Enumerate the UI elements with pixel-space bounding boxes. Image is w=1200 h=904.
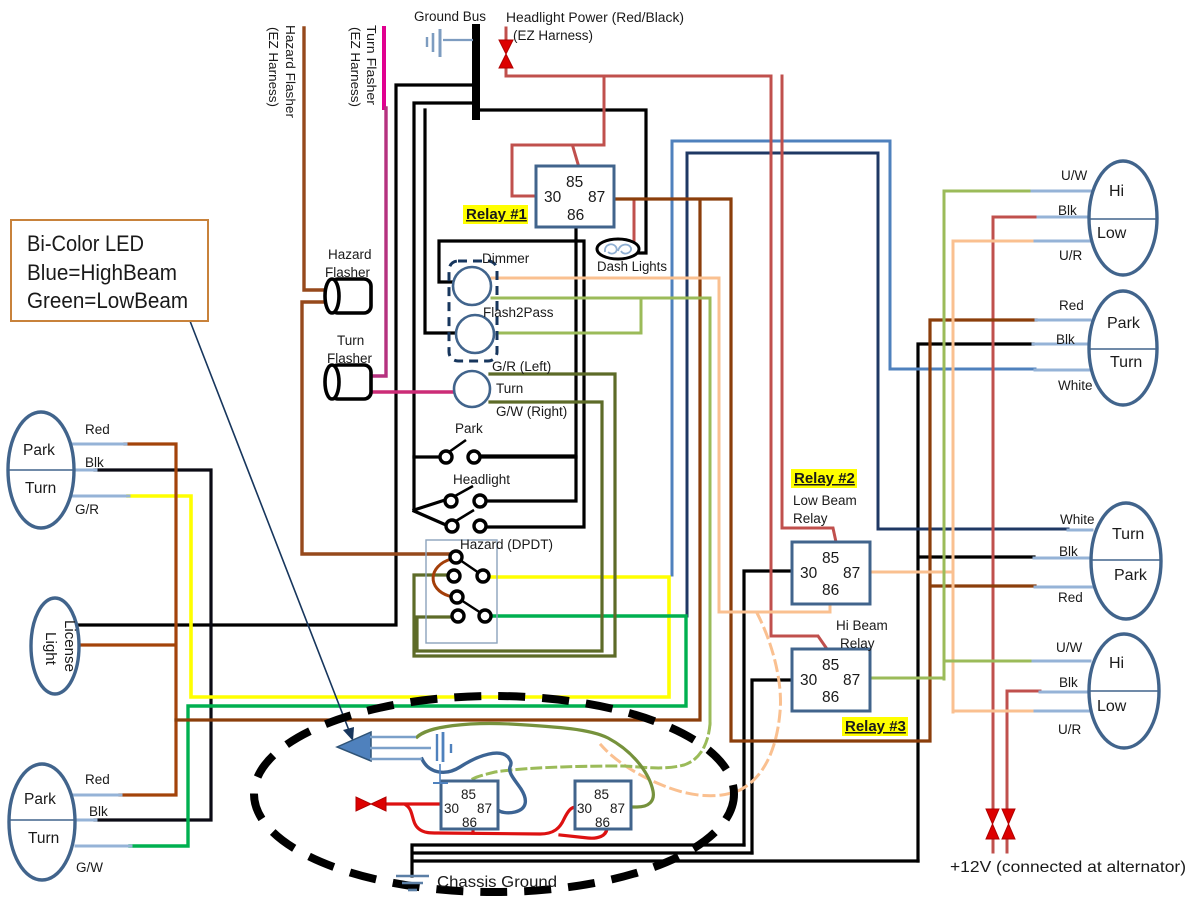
svg-text:Park: Park — [455, 421, 483, 436]
wire navy turn net: dash area to ellipse3 White — [687, 153, 1068, 616]
light blue stub ellipse bottomleft G/W — [76, 845, 131, 848]
svg-text:Hazard: Hazard — [328, 247, 372, 262]
svg-text:Turn Flasher: Turn Flasher — [364, 25, 378, 105]
relay chassis A box — [441, 781, 498, 829]
relay U1 Relay #1 box — [536, 166, 614, 227]
svg-text:White: White — [1060, 512, 1095, 527]
svg-text:Turn: Turn — [496, 381, 523, 396]
wire red stub to relayA 86 — [471, 829, 474, 833]
wire crimson +12V riser from ellipse1 Blk — [993, 217, 1038, 808]
flasher can: turn flasher — [325, 365, 371, 399]
svg-text:Low: Low — [1097, 225, 1127, 242]
relay2 pin numbers — [800, 550, 860, 599]
wire ground-bus to license-light black (net GND-A) — [76, 85, 473, 625]
svg-text:Blk: Blk — [1058, 203, 1077, 218]
wire relay3 pin30 to chassis ground — [752, 680, 792, 853]
switch: turn circle — [454, 371, 490, 407]
wire crimson feed to relay2 85 — [782, 76, 836, 542]
navy pointer line from LED note box — [190, 321, 350, 733]
svg-text:Flasher: Flasher — [325, 265, 371, 280]
svg-text:Low: Low — [1097, 698, 1127, 715]
wire olive G/W right loop: turn switch to hazard — [417, 402, 602, 651]
svg-text:86: 86 — [462, 815, 477, 830]
light blue stub ellipse topleft Blk — [74, 469, 96, 472]
wire relay2 pin30 to chassis ground — [744, 571, 792, 845]
switch: dimmer circle — [453, 267, 491, 305]
wire crimson stub to relay1 pin85 — [573, 147, 578, 164]
svg-text:Hi: Hi — [1109, 183, 1124, 200]
wire tan relay2-87 to ellipse1 U/R and ellipse4 U/R — [870, 241, 1035, 712]
svg-text:30: 30 — [444, 801, 459, 816]
svg-text:Relay #3: Relay #3 — [845, 718, 906, 735]
wire olive G/R left loop: turn switch to hazard — [414, 374, 615, 656]
lamp label license light vertical — [42, 620, 77, 672]
chassis dashed ellipse outline — [254, 696, 734, 892]
svg-text:85: 85 — [822, 550, 839, 567]
light blue stubs ellipse1 U/W Blk U/R — [1032, 191, 1090, 241]
svg-text:Blk: Blk — [1059, 544, 1078, 559]
svg-text:Dimmer: Dimmer — [482, 251, 530, 266]
wire steelblue turn net: yellow corner to ellipse2 White — [672, 141, 1035, 575]
svg-text:U/R: U/R — [1058, 722, 1082, 737]
svg-text:30: 30 — [800, 565, 818, 582]
flasher can: hazard flasher — [325, 279, 371, 313]
svg-text:Flasher: Flasher — [327, 351, 373, 366]
wire brown park net left: ellipse Red stubs and license — [76, 444, 176, 795]
lamp labels ellipse1 — [1097, 183, 1127, 242]
lamp ellipse4 Hi/Low right bottom — [1089, 634, 1159, 748]
svg-text:Bi-Color LED: Bi-Color LED — [27, 231, 144, 256]
light blue stub ellipse bottomleft Red — [73, 794, 121, 797]
svg-text:G/W (Right): G/W (Right) — [496, 404, 567, 419]
svg-text:87: 87 — [588, 189, 605, 206]
lamp ellipse3 Turn/Park right — [1091, 503, 1161, 619]
svg-text:White: White — [1058, 378, 1093, 393]
wire ellipse2 Blk to chassis ground riser — [918, 344, 1034, 861]
LED arrow symbol (blue) — [337, 732, 431, 761]
relay U3 Relay #3 box — [792, 649, 870, 711]
svg-text:Relay #2: Relay #2 — [794, 470, 855, 487]
wire light green dimmer/flash2pass net — [492, 298, 710, 724]
wire brown hazard flasher drop — [302, 28, 449, 554]
wire red stub relay1-87 to dash lights — [633, 199, 636, 240]
light blue stubs ellipse3 White Blk Red — [1034, 530, 1092, 587]
note box Bi-Color LED — [11, 220, 208, 321]
lamp labels ellipse2 — [1107, 315, 1142, 371]
wire ground-bus to park/headlight switch left (net GND-B) — [414, 103, 476, 510]
svg-text:(EZ Harness): (EZ Harness) — [266, 27, 280, 107]
label Relay #2 highlighted — [791, 469, 857, 488]
svg-text:87: 87 — [477, 801, 492, 816]
connector symbol (headlight power, red bowtie) — [499, 40, 513, 68]
ground symbol (chassis ground, bottom) — [396, 876, 429, 890]
wire olive chassis curve to relayB 87 — [417, 724, 653, 807]
wire green G/W turn net — [130, 616, 686, 846]
relay3 pin numbers — [800, 657, 860, 706]
svg-text:Turn: Turn — [337, 333, 364, 348]
wire red from relayB 86 — [560, 829, 607, 838]
svg-text:87: 87 — [843, 565, 860, 582]
label Relay #3 highlighted — [842, 717, 908, 736]
ground symbol (inside chassis, near LED arrow) — [433, 732, 451, 783]
dashed navy box around dimmer/flash2pass — [449, 261, 497, 361]
lamp ellipse topleft Park/Turn — [8, 412, 74, 528]
svg-text:License: License — [61, 620, 77, 672]
svg-text:Red: Red — [1059, 298, 1084, 313]
svg-text:+12V (connected at alternator): +12V (connected at alternator) — [950, 859, 1186, 876]
svg-text:Ground Bus: Ground Bus — [414, 9, 486, 24]
switch: hazard DPDT box, contacts and levers — [426, 540, 497, 643]
pointer arrowhead (navy) — [343, 727, 354, 741]
svg-text:Hazard (DPDT): Hazard (DPDT) — [460, 537, 553, 552]
svg-text:Light: Light — [42, 632, 58, 665]
svg-text:G/R: G/R — [75, 502, 99, 517]
svg-text:85: 85 — [461, 787, 476, 802]
label Relay #1 highlighted — [463, 205, 528, 224]
svg-text:85: 85 — [594, 787, 609, 802]
svg-text:Blue=HighBeam: Blue=HighBeam — [27, 260, 177, 285]
svg-text:Park: Park — [1107, 315, 1141, 332]
svg-text:30: 30 — [577, 801, 592, 816]
wire switch housing top and right side — [439, 241, 584, 527]
light blue stubs ellipse4 U/W Blk U/R — [1033, 661, 1090, 711]
wire crimson feed to relay1 — [512, 76, 604, 196]
wire magenta turn flasher drop — [371, 108, 386, 376]
wire light green dashed to chassis relay 85 — [471, 724, 710, 780]
svg-text:Hi Beam: Hi Beam — [836, 618, 888, 633]
switch: flash2pass circle — [456, 315, 494, 353]
wire magenta turn flasher to turn switch — [371, 390, 454, 393]
lamp ellipse license light — [31, 598, 79, 694]
ground bus bar — [472, 28, 480, 116]
svg-text:87: 87 — [610, 801, 625, 816]
svg-text:G/W: G/W — [76, 860, 103, 875]
svg-text:86: 86 — [822, 689, 839, 706]
wire fork to headlight switch left contacts — [414, 500, 446, 525]
switch: park contacts and lever — [440, 440, 480, 463]
svg-text:30: 30 — [800, 672, 818, 689]
svg-text:Turn: Turn — [25, 480, 56, 497]
svg-text:85: 85 — [566, 174, 583, 191]
wire relay1 pin86 down to park switch and headlight switch — [480, 227, 576, 501]
svg-text:Relay #1: Relay #1 — [466, 206, 527, 223]
svg-text:Red: Red — [85, 772, 110, 787]
svg-text:G/R (Left): G/R (Left) — [492, 359, 551, 374]
svg-text:Blk: Blk — [1059, 675, 1078, 690]
svg-text:Dash Lights: Dash Lights — [597, 259, 667, 274]
lamp ellipse1 Hi/Low right top — [1089, 161, 1157, 275]
svg-text:Turn: Turn — [1110, 354, 1142, 371]
wire tan dashed into chassis area — [601, 613, 780, 796]
svg-text:Low Beam: Low Beam — [793, 493, 857, 508]
svg-text:Blk: Blk — [1056, 332, 1075, 347]
note text Bi-Color LED — [27, 231, 188, 313]
wire ground drop to Flash2Pass switch — [425, 110, 456, 333]
relay U2 Relay #2 box — [792, 542, 870, 604]
svg-text:Park: Park — [24, 791, 56, 808]
wire park switch left arm — [414, 455, 440, 458]
wire left top ellipse Blk loop to left bottom ellipse Blk — [95, 470, 211, 820]
relay1 pin numbers — [544, 174, 605, 224]
svg-text:(EZ Harness): (EZ Harness) — [348, 27, 362, 107]
light blue stub ellipse bottomleft Blk — [76, 819, 96, 822]
connector symbol +12V bowtie left — [986, 809, 999, 839]
svg-text:86: 86 — [822, 582, 839, 599]
wire park switch right contact to relay86 riser — [480, 455, 576, 458]
chassis relay A pin numbers — [444, 787, 492, 830]
svg-text:Red: Red — [85, 422, 110, 437]
wire light green relay3-87 to ellipse1 U/W and ellipse4 U/W — [870, 191, 1033, 679]
svg-text:Turn: Turn — [1112, 526, 1144, 543]
svg-text:Relay: Relay — [793, 511, 828, 526]
lamp ellipse bottomleft Park/Turn — [9, 764, 75, 880]
wire steelblue squiggle to relayA 87 — [422, 753, 525, 813]
wire magenta turn flasher feed — [382, 28, 386, 108]
wire brown hazard jumper arc cA-cC — [433, 559, 451, 596]
svg-text:(EZ Harness): (EZ Harness) — [513, 28, 593, 43]
lamp dash lights ellipse — [597, 239, 639, 259]
switch: headlight contacts and levers — [445, 486, 486, 532]
svg-text:Hi: Hi — [1109, 655, 1124, 672]
lamp labels ellipse4 — [1097, 655, 1127, 715]
wire chassis ground bus lines — [412, 845, 918, 876]
svg-text:87: 87 — [843, 672, 860, 689]
svg-text:Flash2Pass: Flash2Pass — [483, 305, 554, 320]
chassis relay B pin numbers — [577, 787, 625, 830]
svg-text:Turn: Turn — [28, 830, 59, 847]
ground symbol (ground bus, top) — [427, 29, 473, 57]
svg-text:Hazard Flasher: Hazard Flasher — [283, 25, 297, 118]
lamp labels topleft ellipse — [23, 442, 56, 497]
wire red chassis: bowtie to relayA 30 and relayB 30 — [386, 804, 576, 834]
svg-text:Park: Park — [1114, 567, 1148, 584]
svg-text:Headlight Power (Red/Black): Headlight Power (Red/Black) — [506, 10, 684, 25]
svg-text:Blk: Blk — [89, 804, 108, 819]
svg-text:U/W: U/W — [1056, 640, 1083, 655]
wire ground-bus horizontal to dash lights corner (net GND-C) — [476, 110, 646, 253]
svg-text:Chassis Ground: Chassis Ground — [437, 874, 557, 891]
svg-text:85: 85 — [822, 657, 839, 674]
svg-text:Relay: Relay — [840, 636, 875, 651]
relay chassis B box — [575, 781, 631, 829]
svg-text:Headlight: Headlight — [453, 472, 510, 487]
wire brown relay1-87 park feed net — [176, 199, 1036, 741]
svg-text:Blk: Blk — [85, 455, 104, 470]
svg-text:U/W: U/W — [1061, 168, 1088, 183]
wire +12V stubs below connectors — [993, 840, 1007, 852]
wire crimson +12V riser from ellipse4 Blk — [1007, 691, 1040, 808]
svg-text:Green=LowBeam: Green=LowBeam — [27, 288, 188, 313]
wire crimson headlight power feed — [506, 28, 827, 649]
lamp labels ellipse3 — [1112, 526, 1148, 584]
lamp labels bottomleft ellipse — [24, 791, 59, 847]
wire yellow G/R turn net — [128, 496, 669, 697]
light blue stubs ellipse2 Red Blk White — [1033, 320, 1090, 370]
svg-text:Park: Park — [23, 442, 55, 459]
svg-text:30: 30 — [544, 189, 562, 206]
connector symbol chassis red bowtie — [356, 797, 386, 811]
light blue stub ellipse topleft Red — [73, 443, 126, 446]
wire tan dimmer net to relay2 86 — [492, 278, 830, 612]
light blue stub ellipse topleft G/R — [73, 495, 129, 498]
svg-text:86: 86 — [567, 207, 584, 224]
svg-text:U/R: U/R — [1059, 248, 1083, 263]
lamp ellipse2 Park/Turn right — [1089, 291, 1157, 405]
svg-text:Red: Red — [1058, 590, 1083, 605]
svg-text:86: 86 — [595, 815, 610, 830]
connector symbol +12V bowtie right — [1002, 809, 1015, 839]
